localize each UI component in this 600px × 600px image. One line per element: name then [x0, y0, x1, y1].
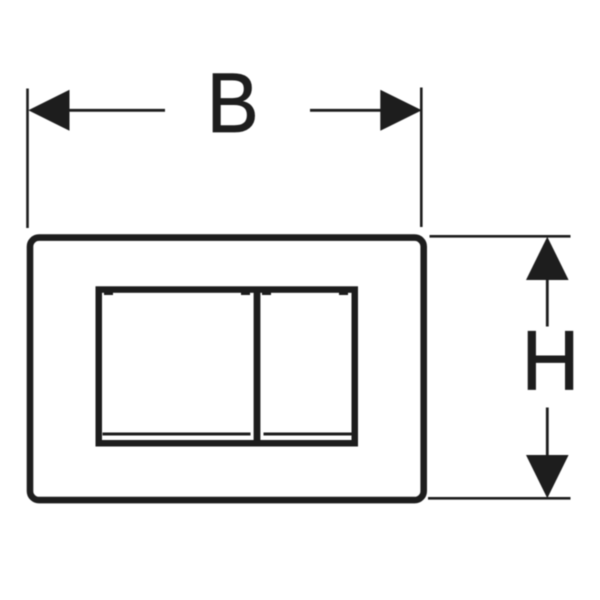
- dimension line B right segment: [310, 109, 381, 112]
- arrowhead B right: [380, 90, 422, 131]
- dimension line H upper segment: [546, 279, 549, 327]
- left button inner corner nub left: [104, 293, 113, 296]
- button divider: [254, 288, 261, 446]
- button recess frame: [99, 290, 355, 444]
- svg-text:H: H: [522, 315, 580, 408]
- svg-text:B: B: [207, 57, 259, 150]
- right button inner corner nub right: [339, 293, 348, 296]
- label B: [207, 57, 259, 150]
- dimension line B left segment: [69, 109, 165, 112]
- left button inner corner nub right: [241, 293, 250, 296]
- left button bottom bevel line: [103, 433, 251, 436]
- plate outline: [30, 238, 424, 501]
- label H: [522, 315, 580, 408]
- extension line left (B): [26, 89, 29, 229]
- extension line top (H): [430, 235, 571, 238]
- extension line bottom (H): [428, 497, 571, 500]
- right button bottom bevel line: [264, 433, 352, 436]
- arrowhead H top: [526, 237, 569, 280]
- dimension line H lower segment: [546, 408, 549, 457]
- arrowhead B left: [28, 90, 69, 131]
- right button inner corner nub left: [262, 293, 271, 296]
- extension line right (B): [420, 88, 423, 228]
- arrowhead H bottom: [526, 455, 569, 498]
